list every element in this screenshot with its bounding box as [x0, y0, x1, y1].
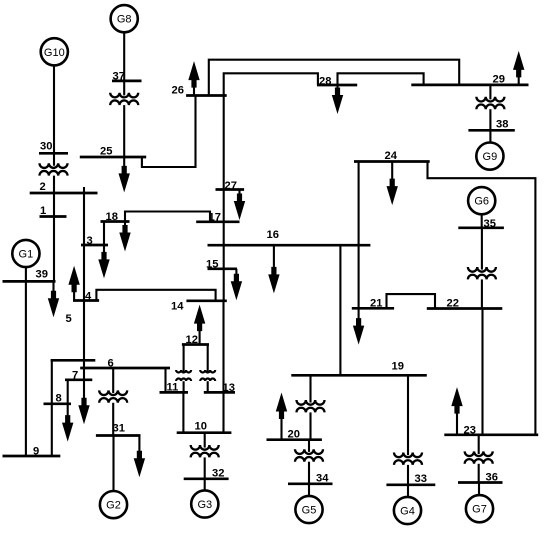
- svg-text:26: 26: [172, 85, 184, 97]
- svg-text:29: 29: [493, 74, 505, 86]
- svg-text:12: 12: [186, 334, 198, 346]
- svg-text:35: 35: [484, 218, 496, 230]
- load arrow bus 27: [234, 190, 245, 221]
- transformer T30-2: [39, 163, 67, 175]
- svg-text:G8: G8: [117, 14, 132, 26]
- load arrow bus 26: [188, 61, 199, 95]
- load arrow bus 24: [387, 162, 398, 206]
- svg-text:G6: G6: [474, 196, 489, 208]
- wire G1-39-9: [25, 267, 27, 456]
- load arrow bus 15: [231, 269, 242, 300]
- wire 29-38top: [489, 85, 491, 100]
- svg-text:30: 30: [40, 141, 52, 153]
- generator G8: [111, 5, 138, 32]
- wire 21-22: [387, 294, 436, 308]
- wire 6-11: [164, 368, 166, 392]
- svg-text:14: 14: [171, 301, 184, 313]
- svg-text:38: 38: [496, 119, 508, 131]
- generator G3: [191, 490, 218, 517]
- load arrow bus 4: [68, 266, 79, 301]
- wire G8-37: [123, 32, 125, 95]
- bus 15: [208, 267, 238, 270]
- wire G6-35: [481, 214, 483, 228]
- generator G4: [394, 497, 421, 524]
- wire 29-38bot: [489, 109, 491, 130]
- svg-text:6: 6: [108, 358, 114, 370]
- svg-text:31: 31: [113, 423, 125, 435]
- bus 1: [40, 215, 67, 218]
- bus 9: [3, 455, 61, 458]
- wire 6-31bot: [112, 403, 114, 436]
- transformer T23-36: [465, 451, 493, 463]
- wire 19-20top: [309, 375, 311, 402]
- wire 2-1-39: [53, 176, 55, 282]
- wire 20-34top: [308, 440, 310, 452]
- generator G5: [295, 496, 322, 523]
- svg-text:18: 18: [106, 211, 118, 223]
- load arrow bus 28: [332, 85, 343, 114]
- bus 25: [80, 156, 146, 159]
- wire 23-36bot: [478, 464, 480, 483]
- wire 25-26: [142, 96, 196, 168]
- load arrow bus 23: [451, 387, 462, 435]
- transformer T29-38: [476, 97, 504, 109]
- svg-text:19: 19: [392, 361, 404, 373]
- generator G7: [466, 495, 493, 522]
- wire 10-32top: [204, 433, 206, 448]
- load arrow bus 8: [62, 404, 73, 442]
- wire 35-22top: [481, 228, 483, 270]
- bus 35: [458, 226, 504, 229]
- transformer T10-32: [191, 445, 219, 457]
- load arrow bus 25: [119, 157, 130, 192]
- wire 12-13top: [207, 345, 209, 373]
- wire 18-3: [103, 222, 105, 246]
- svg-text:22: 22: [447, 298, 459, 310]
- svg-text:36: 36: [486, 472, 498, 484]
- wire 12-11bot: [183, 381, 185, 392]
- wire 19-20bot: [309, 412, 311, 439]
- svg-text:33: 33: [415, 473, 427, 485]
- bus 17: [196, 220, 239, 223]
- wire 34-G5: [308, 484, 310, 496]
- wire 24-16-21: [358, 162, 360, 309]
- wire 16-19: [339, 245, 341, 375]
- bus 19: [291, 374, 427, 377]
- bus 29: [411, 84, 528, 87]
- bus 37: [112, 80, 142, 83]
- transformer T12-11: [176, 370, 191, 381]
- bus 33: [386, 483, 435, 486]
- load arrow bus 29: [513, 51, 524, 85]
- wire 36-G7: [478, 483, 480, 496]
- svg-text:5: 5: [66, 313, 72, 325]
- bus 30: [39, 152, 68, 155]
- load arrow bus 31: [134, 436, 145, 478]
- bus 28: [317, 84, 357, 87]
- bus 23: [444, 433, 538, 436]
- wire 7-8: [67, 380, 69, 404]
- wire 26-28: [224, 73, 318, 95]
- generator G6: [468, 187, 495, 214]
- bus 32: [184, 477, 229, 480]
- bus 10: [177, 431, 232, 434]
- wire 33-G4: [407, 485, 409, 497]
- bus 5: [51, 359, 96, 362]
- svg-text:8: 8: [56, 393, 62, 405]
- bus 8: [44, 402, 72, 405]
- wire 4-14: [96, 290, 215, 301]
- load arrow bus 7: [78, 380, 89, 424]
- svg-text:2: 2: [40, 181, 46, 193]
- svg-text:G1: G1: [19, 249, 34, 261]
- wire 10-32bot: [204, 457, 206, 478]
- svg-text:G4: G4: [400, 506, 415, 518]
- svg-text:G5: G5: [302, 505, 317, 517]
- wire G10-30-2top: [53, 65, 55, 166]
- svg-text:32: 32: [212, 468, 224, 480]
- load arrow bus 3: [98, 245, 109, 278]
- wire 32-G3: [204, 479, 206, 491]
- transformer T12-13: [200, 370, 215, 381]
- load arrow bus 12: [194, 305, 205, 345]
- generator G10: [41, 38, 68, 65]
- svg-text:24: 24: [385, 150, 398, 162]
- bus 27: [216, 188, 245, 191]
- bus 2: [30, 192, 98, 195]
- wire 12-11top: [183, 345, 185, 373]
- svg-text:1: 1: [40, 205, 46, 217]
- wire 26-27-17-16-15-14: [223, 96, 225, 301]
- transformer T6-31: [99, 390, 127, 402]
- svg-text:11: 11: [167, 382, 179, 394]
- svg-text:7: 7: [72, 370, 78, 382]
- load arrow bus 16: [268, 245, 279, 293]
- load arrow bus 39: [48, 281, 59, 317]
- transformer T19-33: [394, 453, 422, 465]
- bus 7: [65, 378, 92, 381]
- bus 3: [81, 244, 108, 247]
- bus 34: [288, 482, 333, 485]
- bus 4: [73, 299, 99, 302]
- svg-text:4: 4: [85, 291, 92, 303]
- svg-text:10: 10: [195, 421, 207, 433]
- bus 24: [354, 160, 430, 163]
- svg-text:20: 20: [288, 429, 300, 441]
- svg-text:28: 28: [319, 76, 331, 88]
- svg-text:G3: G3: [197, 499, 212, 511]
- svg-text:16: 16: [267, 229, 279, 241]
- wire 22-23: [481, 309, 483, 435]
- wire 26-29: [209, 60, 459, 96]
- bus 6: [80, 367, 170, 370]
- load arrow bus 18: [119, 222, 130, 252]
- wire 14-13-10: [222, 301, 224, 433]
- svg-text:G2: G2: [106, 500, 121, 512]
- wire 5-8-9: [51, 360, 53, 456]
- bus 26: [186, 94, 227, 97]
- wire 20-34bot: [308, 462, 310, 484]
- transformer T35-22: [468, 267, 496, 279]
- transformer T20-34: [295, 449, 323, 461]
- bus 38: [468, 129, 514, 132]
- transformer T37-25: [110, 93, 138, 105]
- generator G1: [12, 240, 39, 267]
- wire 28-29: [338, 73, 424, 85]
- bus 31: [96, 434, 141, 437]
- wire 38-G9: [489, 130, 491, 142]
- svg-text:25: 25: [100, 146, 112, 158]
- bus 13: [204, 391, 235, 394]
- wire 11-10: [182, 392, 184, 432]
- wire 18-17: [125, 212, 210, 222]
- generator G2: [100, 491, 127, 518]
- bus 18: [101, 220, 130, 223]
- svg-text:9: 9: [33, 446, 39, 458]
- bus 20: [267, 438, 322, 441]
- wire 2-3-4-5-6-7: [83, 187, 85, 380]
- svg-text:3: 3: [87, 235, 93, 247]
- svg-text:37: 37: [113, 71, 125, 83]
- svg-text:23: 23: [464, 425, 476, 437]
- wire 35-22bot: [481, 279, 483, 308]
- wire 19-33bot: [407, 465, 409, 485]
- wire 12-13bot: [207, 381, 209, 392]
- bus 22: [427, 307, 503, 310]
- svg-text:39: 39: [36, 269, 48, 281]
- wire 23-36top: [478, 435, 480, 454]
- svg-text:15: 15: [206, 259, 218, 271]
- generator G9: [476, 143, 503, 170]
- bus 39: [3, 280, 56, 283]
- load arrow bus 21: [353, 308, 364, 344]
- wire 31-G2: [112, 436, 114, 492]
- svg-text:34: 34: [316, 473, 329, 485]
- load arrow bus 20: [276, 393, 287, 440]
- svg-text:21: 21: [370, 298, 382, 310]
- bus 21: [352, 307, 394, 310]
- bus 36: [458, 481, 503, 484]
- svg-text:27: 27: [225, 180, 237, 192]
- svg-text:G9: G9: [483, 151, 498, 163]
- bus 12: [182, 343, 209, 346]
- wire 19-33top: [407, 375, 409, 455]
- transformer T19-20: [296, 400, 324, 412]
- bus 16: [208, 244, 371, 247]
- svg-text:G7: G7: [472, 504, 487, 516]
- svg-text:G10: G10: [44, 47, 65, 59]
- wire 6-31top: [112, 368, 114, 393]
- bus 14: [186, 299, 226, 302]
- wire 37-25: [123, 105, 125, 157]
- bus 11: [160, 391, 189, 394]
- wire 24-23: [428, 162, 536, 435]
